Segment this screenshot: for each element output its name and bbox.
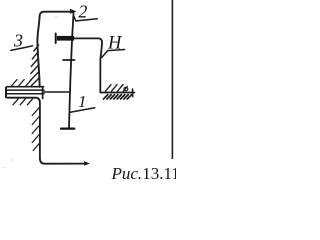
carrier support hatching above [105, 85, 127, 92]
carrier support hatched ground strip below [104, 95, 132, 99]
lower support line with lower wall of frame and output link to arrow [8, 98, 86, 164]
input shaft upper support line [7, 86, 44, 88]
planet gear 2 mesh block [57, 36, 74, 41]
shaft line to sun gear 1 axis [44, 91, 70, 93]
carrier H link: horizontal arm and vertical drop [74, 38, 102, 92]
input shaft left end cap [5, 88, 7, 98]
shaft collar tick at wall [42, 87, 44, 98]
mesh block left end cap [55, 34, 57, 44]
leader line for label 1 [70, 108, 95, 113]
leader line for label H [102, 50, 125, 58]
svg-text:3: 3 [13, 30, 23, 50]
ring gear 3 rim: top horizontal link and left wall line [37, 12, 73, 87]
input shaft (double line) [6, 89, 44, 91]
paper speckles [11, 159, 13, 161]
leader line for label 3 [11, 46, 33, 51]
page border line (right edge) [171, 0, 173, 159]
wall hatching (fixed ring gear 3, upper) [30, 45, 39, 86]
svg-text:2: 2 [78, 1, 87, 21]
arrowhead on output link [84, 161, 90, 165]
carrier support end tick [132, 89, 134, 97]
leader line for label 2 [74, 17, 97, 21]
wall hatching (fixed frame, lower) [32, 108, 39, 151]
sun gear 1 shaft bottom end cap [61, 128, 74, 130]
hatching below lower support line [13, 99, 33, 105]
svg-text:1: 1 [78, 92, 87, 111]
wire [6, 93, 44, 95]
small circle mark at hatch end [124, 87, 128, 90]
gear tooth tick on shaft [63, 59, 75, 61]
carrier H support base line [100, 92, 134, 94]
central shaft of gear 2 (slightly slanted, hand drawn) [69, 12, 74, 129]
arrowhead at shaft 2 top junction [70, 9, 77, 14]
hatching above upper support line [11, 80, 31, 86]
svg-text:Рис.13.11: Рис.13.11 [111, 164, 177, 183]
